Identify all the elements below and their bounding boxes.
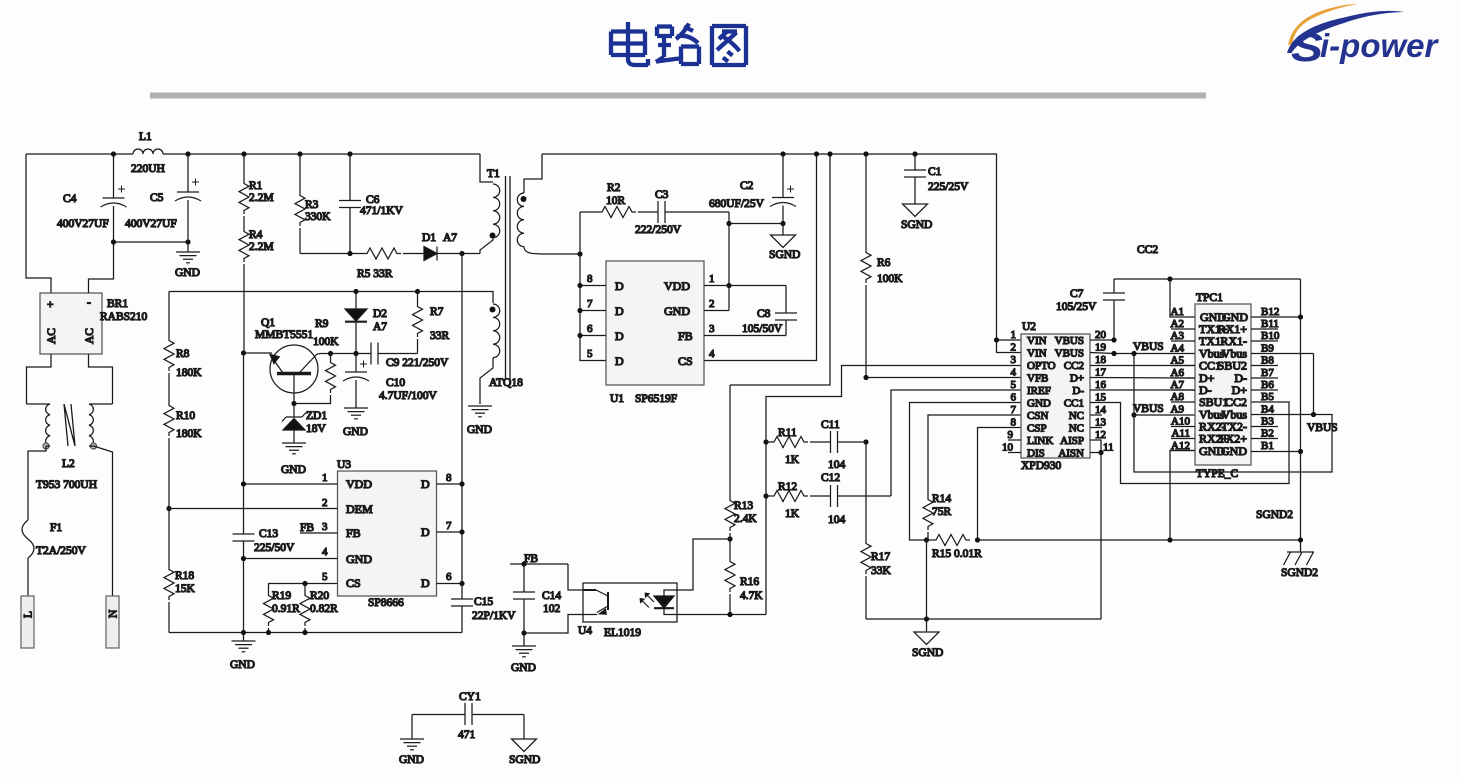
- wire FB to U4 transistor collector: [568, 564, 583, 590]
- svg-text:VDD: VDD: [664, 279, 690, 293]
- svg-text:100K: 100K: [877, 273, 903, 285]
- node C6 top: [347, 151, 352, 156]
- node T1 primary bottom junction: [459, 251, 464, 256]
- svg-text:R16: R16: [740, 576, 759, 588]
- diode D2: [345, 292, 387, 354]
- wire U3 pin5 CS to R19/R20: [269, 584, 338, 593]
- svg-text:SGND: SGND: [509, 754, 540, 766]
- TPC1 A-side stubs: [1170, 329, 1195, 451]
- wire U2 pin6 GND riser: [910, 403, 1022, 541]
- wire VBUS column A9: [1134, 354, 1332, 473]
- svg-text:C1: C1: [928, 166, 942, 178]
- diode D1: [422, 232, 457, 261]
- svg-text:C9 221/250V: C9 221/250V: [386, 357, 449, 369]
- svg-text:7: 7: [1011, 404, 1017, 416]
- svg-text:33R: 33R: [430, 330, 450, 342]
- wire VDD bus down with C13: [243, 353, 245, 534]
- optocoupler U4 EL1019: [578, 583, 677, 639]
- ground below CY1 left: [399, 715, 424, 767]
- svg-text:C11: C11: [821, 419, 840, 431]
- node secondary bottom / R2 junction: [577, 251, 582, 256]
- svg-text:D: D: [615, 279, 624, 293]
- svg-text:R17: R17: [871, 551, 890, 563]
- svg-text:LINK: LINK: [1027, 435, 1053, 447]
- wire U3 right D bus stubs: [437, 484, 463, 584]
- resistor R7: [413, 292, 450, 354]
- svg-text:1: 1: [709, 273, 715, 285]
- wire emitter to left rail: [244, 352, 273, 354]
- svg-text:3: 3: [1011, 354, 1017, 366]
- svg-text:A11: A11: [1171, 428, 1190, 440]
- svg-text:IREF: IREF: [1027, 385, 1051, 397]
- capacitor C13: [233, 528, 295, 633]
- terminal N: [106, 596, 120, 648]
- wire B-side ground column: [1300, 279, 1302, 552]
- svg-text:13: 13: [1095, 417, 1107, 429]
- resistor R2: [580, 182, 636, 218]
- IC U2 XPD930: [1021, 321, 1090, 472]
- node junction L1 left: [111, 151, 116, 156]
- svg-text:R1: R1: [249, 180, 263, 192]
- svg-text:GND: GND: [346, 552, 372, 566]
- wire L2 left to fuse: [28, 446, 50, 520]
- svg-text:19: 19: [1095, 342, 1107, 354]
- svg-text:15: 15: [1095, 392, 1107, 404]
- svg-text:FB: FB: [346, 526, 361, 540]
- svg-text:AISP: AISP: [1060, 435, 1084, 447]
- svg-text:B12: B12: [1261, 306, 1279, 318]
- svg-text:D: D: [615, 304, 624, 318]
- svg-text:B11: B11: [1261, 318, 1279, 330]
- svg-text:A8: A8: [1171, 391, 1185, 403]
- svg-text:A2: A2: [1171, 318, 1184, 330]
- svg-text:BR1: BR1: [107, 298, 128, 310]
- svg-text:C3: C3: [655, 189, 669, 201]
- wire U2 pins12/11 AISP+AISN join: [1090, 440, 1101, 619]
- svg-text:D: D: [421, 576, 430, 590]
- wire top rail right (VBUS side): [542, 154, 997, 340]
- svg-text:4: 4: [1011, 367, 1017, 379]
- svg-text:C12: C12: [821, 472, 840, 484]
- svg-text:D1: D1: [422, 232, 436, 244]
- ground below C10: [343, 408, 368, 438]
- svg-text:2.2M: 2.2M: [249, 241, 274, 253]
- capacitor C4: [57, 154, 127, 242]
- resistor R19: [264, 590, 301, 633]
- wire R14 node down to SGND rail: [926, 540, 928, 619]
- svg-text:0.82R: 0.82R: [310, 603, 338, 615]
- wire U3 pin1 VDD: [244, 483, 338, 485]
- wire A9 stub: [1134, 414, 1195, 416]
- svg-text:10: 10: [1002, 442, 1014, 454]
- svg-text:R14: R14: [932, 493, 951, 505]
- wire junction down to U3 D bus: [461, 254, 463, 584]
- svg-text:R3: R3: [305, 199, 319, 211]
- svg-text:B10: B10: [1261, 330, 1280, 342]
- svg-text:102: 102: [543, 603, 561, 615]
- svg-text:5: 5: [587, 348, 593, 360]
- svg-text:R12: R12: [778, 481, 797, 493]
- svg-text:T2A/250V: T2A/250V: [36, 545, 87, 557]
- svg-text:RABS210: RABS210: [100, 311, 148, 323]
- wire U3 pin2 DEM to R10/R18 node: [169, 508, 338, 510]
- resistor R8: [164, 292, 202, 380]
- terminal L: [21, 596, 35, 648]
- node D2 top: [353, 289, 358, 294]
- capacitor C8: [742, 286, 797, 336]
- transformer L2 common-mode choke: [27, 404, 113, 491]
- svg-text:R13: R13: [734, 500, 753, 512]
- svg-text:7: 7: [587, 298, 593, 310]
- ground below C5: [175, 242, 200, 279]
- svg-text:GND: GND: [399, 754, 424, 766]
- svg-text:2: 2: [709, 298, 715, 310]
- svg-text:20: 20: [1095, 329, 1107, 341]
- svg-text:C4: C4: [63, 193, 77, 205]
- fuse F1: [22, 520, 87, 558]
- 电: [611, 22, 648, 66]
- node Q1 base / ZD1: [291, 401, 296, 406]
- svg-text:-: -: [87, 297, 91, 309]
- wire fuse to L terminal: [27, 558, 29, 596]
- wire U2 pin8 CSP riser: [978, 428, 1022, 541]
- resistor R9: [294, 318, 339, 404]
- svg-text:5: 5: [322, 571, 328, 583]
- node R14/R15 left junction: [924, 537, 929, 542]
- svg-text:10R: 10R: [606, 195, 626, 207]
- node R13/R16 junction: [727, 536, 732, 541]
- wire U2 pin1 VIN riser from top rail: [994, 337, 999, 342]
- svg-text:FB: FB: [678, 329, 693, 343]
- svg-text:4.7UF/100V: 4.7UF/100V: [379, 390, 438, 402]
- capacitor CY1: [412, 691, 524, 741]
- svg-text:N: N: [108, 609, 120, 618]
- wire U2 pin13 NC stub: [1090, 427, 1102, 429]
- svg-text:180K: 180K: [176, 428, 202, 440]
- svg-text:SGND: SGND: [901, 219, 932, 231]
- wire C14 bottom to U4 emitter: [524, 615, 583, 634]
- capacitor C11: [810, 419, 866, 471]
- resistor R15: [927, 535, 983, 561]
- svg-text:R10: R10: [176, 410, 195, 422]
- svg-text:8: 8: [1011, 417, 1017, 429]
- svg-text:GND: GND: [1027, 398, 1051, 410]
- svg-text:D+: D+: [1070, 373, 1084, 385]
- node junction L1 right: [185, 151, 190, 156]
- svg-text:CS: CS: [346, 576, 361, 590]
- wire bias rail y=291.5: [169, 291, 480, 293]
- ground below C14: [511, 633, 536, 674]
- svg-text:CC1: CC1: [1064, 398, 1084, 410]
- svg-text:A5: A5: [1171, 355, 1185, 367]
- svg-text:MMBT5551: MMBT5551: [255, 329, 313, 341]
- svg-text:R4: R4: [249, 229, 263, 241]
- capacitor C2 electrolytic: [709, 151, 796, 223]
- capacitor C1: [904, 151, 969, 204]
- svg-text:GND: GND: [343, 426, 368, 438]
- svg-text:R5 33R: R5 33R: [357, 268, 393, 280]
- svg-text:C14: C14: [542, 590, 561, 602]
- capacitor C15: [451, 584, 516, 633]
- chassis ground SGND2: [1281, 552, 1318, 579]
- inductor L1: [131, 131, 165, 175]
- svg-text:14: 14: [1095, 404, 1107, 416]
- wire U1 left D pin bus: [580, 254, 606, 361]
- core: [506, 176, 511, 380]
- svg-text:220UH: 220UH: [131, 163, 165, 175]
- capacitor C6: [339, 154, 404, 254]
- svg-text:GND: GND: [664, 304, 690, 318]
- resistor R1: [239, 154, 274, 214]
- svg-text:A3: A3: [1171, 330, 1185, 342]
- wire OPTO bus from U2 pin3: [766, 366, 1021, 615]
- svg-text:B7: B7: [1261, 367, 1274, 379]
- svg-text:AC: AC: [46, 328, 58, 344]
- svg-text:225/50V: 225/50V: [254, 542, 295, 554]
- svg-text:CS: CS: [678, 354, 693, 368]
- svg-text:SP8666: SP8666: [368, 597, 404, 609]
- svg-text:GND: GND: [511, 662, 536, 674]
- svg-text:CC2: CC2: [1137, 244, 1158, 256]
- svg-text:2: 2: [1011, 342, 1017, 354]
- svg-text:R7: R7: [430, 306, 444, 318]
- capacitor C7: [1056, 279, 1125, 340]
- svg-text:8: 8: [446, 472, 452, 484]
- wire collector row: [317, 353, 356, 356]
- svg-text:CY1: CY1: [459, 691, 481, 703]
- wire U2 pin18 CC2 to A5: [1090, 365, 1195, 367]
- svg-text:R11: R11: [778, 427, 797, 439]
- svg-text:R6: R6: [877, 257, 891, 269]
- svg-text:TYPE_C: TYPE_C: [1196, 468, 1239, 480]
- wire R3/C6 bottom row to R5: [300, 253, 363, 255]
- svg-text:9: 9: [1008, 429, 1014, 441]
- svg-text:222/250V: 222/250V: [635, 224, 682, 236]
- wire C2 bottom to C3 column: [729, 223, 783, 225]
- wire U2 pin10 DIS stub: [1008, 452, 1021, 454]
- svg-text:EL1019: EL1019: [604, 627, 641, 639]
- svg-text:R20: R20: [310, 590, 329, 602]
- svg-text:B9: B9: [1261, 343, 1274, 355]
- wire U2 pin14 NC stub: [1090, 414, 1102, 416]
- svg-text:SGND: SGND: [769, 249, 800, 261]
- wire BR1 AC outputs to L2: [27, 354, 113, 404]
- svg-text:C8: C8: [757, 308, 771, 320]
- svg-text:NC: NC: [1069, 423, 1084, 435]
- wire R13 riser to top rail: [730, 154, 830, 385]
- wire U2 pin20 VBUS stub: [1090, 339, 1114, 341]
- svg-text:180K: 180K: [176, 367, 202, 379]
- svg-text:680UF/25V: 680UF/25V: [709, 198, 765, 210]
- resistor R6: [861, 151, 903, 377]
- svg-text:SGND2: SGND2: [1281, 567, 1318, 579]
- capacitor C9: [356, 343, 449, 370]
- wire B9 to B4 riser: [1313, 354, 1315, 415]
- node DEM junction: [166, 506, 171, 511]
- wire U2 pin4 VFB: [866, 377, 1021, 379]
- capacitor C3: [635, 189, 729, 236]
- page title 电路图 (drawn strokes): [611, 22, 746, 66]
- wire R2 left riser: [579, 212, 581, 254]
- primary winding: [480, 154, 493, 182]
- svg-text:R8: R8: [176, 348, 190, 360]
- ground below aux winding: [467, 406, 492, 436]
- svg-text:6: 6: [446, 571, 452, 583]
- wire U2 pin15 CC1 to B5 loop: [1090, 402, 1289, 484]
- resistor R14: [923, 493, 952, 540]
- resistor R3: [295, 154, 331, 254]
- TPC1 B-side pin labels: [1261, 306, 1280, 452]
- secondary winding: [524, 154, 542, 193]
- wire C4-C5 bottom: [114, 241, 189, 243]
- signal ground SGND below C2: [769, 224, 800, 262]
- node C11 right / VFB column: [863, 439, 868, 444]
- svg-text:3: 3: [709, 323, 715, 335]
- svg-text:FB: FB: [300, 522, 314, 534]
- svg-text:C7: C7: [1070, 288, 1084, 300]
- resistor R11: [766, 427, 808, 466]
- svg-text:1: 1: [1011, 329, 1017, 341]
- svg-text:B8: B8: [1261, 355, 1274, 367]
- wire A12 GND riser: [1170, 451, 1195, 541]
- svg-text:T1: T1: [487, 168, 500, 180]
- svg-text:4: 4: [322, 546, 328, 558]
- svg-text:18: 18: [1095, 354, 1107, 366]
- connector TPC1 TYPE_C: [1195, 292, 1251, 480]
- svg-text:B3: B3: [1261, 416, 1274, 428]
- signal ground SGND below C1: [901, 204, 932, 231]
- svg-text:SGND2: SGND2: [1256, 509, 1293, 521]
- zener ZD1: [282, 404, 327, 444]
- 路: [656, 24, 699, 65]
- resistor R17: [861, 442, 892, 619]
- wire top rail left (AC bus): [26, 154, 480, 293]
- wire U1 pin3 FB to C8 bottom: [704, 335, 786, 337]
- svg-text:L2: L2: [62, 458, 75, 470]
- svg-text:C15: C15: [474, 596, 493, 608]
- 图: [712, 26, 746, 65]
- node R12 left: [763, 493, 768, 498]
- svg-text:VIN: VIN: [1027, 335, 1047, 347]
- svg-text:R18: R18: [175, 570, 194, 582]
- svg-text:2.2M: 2.2M: [249, 192, 274, 204]
- capacitor C10 electrolytic: [343, 354, 438, 409]
- svg-text:CSN: CSN: [1027, 410, 1048, 422]
- svg-text:15K: 15K: [175, 583, 196, 595]
- node R11 left: [763, 439, 768, 444]
- resistor R12: [766, 481, 808, 520]
- svg-text:D2: D2: [373, 308, 387, 320]
- capacitor C14: [513, 564, 561, 633]
- wire CC2 grounds top run: [1114, 278, 1301, 280]
- svg-text:T953 700UH: T953 700UH: [36, 479, 97, 491]
- svg-text:XPD930: XPD930: [1021, 460, 1062, 472]
- svg-text:1: 1: [322, 472, 328, 484]
- svg-text:225/25V: 225/25V: [928, 181, 969, 193]
- svg-text:VBUS: VBUS: [1133, 341, 1164, 353]
- ground below ZD1: [281, 443, 306, 476]
- svg-text:GND: GND: [230, 659, 255, 671]
- wire D1 to T1 primary bottom: [437, 253, 480, 255]
- wire TPC1 A1: [1170, 279, 1195, 317]
- resistor R20: [300, 584, 338, 633]
- signal ground SGND CY1 right: [509, 715, 540, 767]
- svg-text:SGND: SGND: [912, 647, 943, 659]
- wire R5 to D1: [403, 253, 424, 255]
- svg-text:GND: GND: [175, 267, 200, 279]
- node C9/C10/D2 junction: [353, 351, 358, 356]
- svg-text:F1: F1: [50, 522, 62, 534]
- bridge rectifier BR1 RABS210: [40, 293, 148, 354]
- wire U2 pin7 CSN riser: [928, 415, 1021, 496]
- svg-text:D: D: [615, 329, 624, 343]
- svg-text:400V27UF: 400V27UF: [57, 218, 109, 230]
- resistor R13: [725, 385, 757, 539]
- svg-text:VDD: VDD: [346, 477, 372, 491]
- svg-text:33K: 33K: [871, 565, 892, 577]
- wire C3 right down to U1 pins 1/2: [728, 212, 730, 311]
- wire U4 LED anode to R13/R16 node: [677, 539, 730, 590]
- svg-text:C5: C5: [150, 192, 164, 204]
- wire U2 pin16 D- to A7: [1090, 389, 1195, 391]
- svg-text:105/50V: 105/50V: [742, 323, 783, 335]
- node R1 top: [241, 151, 246, 156]
- svg-text:105/25V: 105/25V: [1056, 301, 1097, 313]
- svg-text:2.4K: 2.4K: [734, 513, 757, 525]
- svg-text:A7: A7: [443, 232, 457, 244]
- svg-text:400V27UF: 400V27UF: [125, 218, 177, 230]
- svg-text:ZD1: ZD1: [306, 410, 327, 422]
- wire U3 pin3 FB stub: [300, 532, 338, 534]
- svg-text:i-power: i-power: [1320, 27, 1439, 64]
- svg-text:330K: 330K: [305, 211, 331, 223]
- svg-text:0.91R: 0.91R: [272, 603, 300, 615]
- svg-text:8: 8: [587, 273, 593, 285]
- resistor R4: [239, 216, 274, 353]
- svg-text:104: 104: [828, 459, 846, 471]
- svg-text:471/1KV: 471/1KV: [360, 205, 404, 217]
- svg-text:75R: 75R: [932, 506, 952, 518]
- svg-text:R19: R19: [272, 590, 291, 602]
- signal ground SGND bottom: [912, 619, 943, 659]
- svg-text:VBUS: VBUS: [1307, 422, 1338, 434]
- transistor Q1 MMBT5551: [255, 317, 318, 404]
- U2 pin names: [1027, 335, 1084, 460]
- wire SGND2 sense rail y=540: [978, 539, 1301, 541]
- svg-text:4.7K: 4.7K: [740, 590, 763, 602]
- svg-text:L: L: [23, 611, 35, 618]
- svg-text:2: 2: [322, 497, 328, 509]
- svg-text:C10: C10: [386, 377, 405, 389]
- svg-text:NC: NC: [1069, 410, 1084, 422]
- wire C12 right riser to U2 pin5 IREF: [891, 390, 1021, 496]
- wire U2 pin9 LINK stub: [1008, 439, 1021, 441]
- capacitor C5: [125, 154, 201, 242]
- wire U1 pin2 GND stub: [704, 310, 729, 312]
- resistor R16: [725, 539, 763, 615]
- svg-text:1K: 1K: [785, 454, 800, 466]
- IC U1 SP6519F: [587, 261, 715, 405]
- svg-text:C2: C2: [740, 180, 754, 192]
- svg-text:R15 0.01R: R15 0.01R: [932, 548, 982, 560]
- wire U4 LED cathode to R16 bottom rail: [677, 614, 766, 616]
- capacitor C12: [810, 472, 891, 526]
- svg-text:D: D: [615, 354, 624, 368]
- aux winding: [480, 292, 493, 304]
- svg-text:A7: A7: [1171, 379, 1185, 391]
- svg-text:U4: U4: [578, 625, 592, 637]
- node R7 top: [415, 289, 420, 294]
